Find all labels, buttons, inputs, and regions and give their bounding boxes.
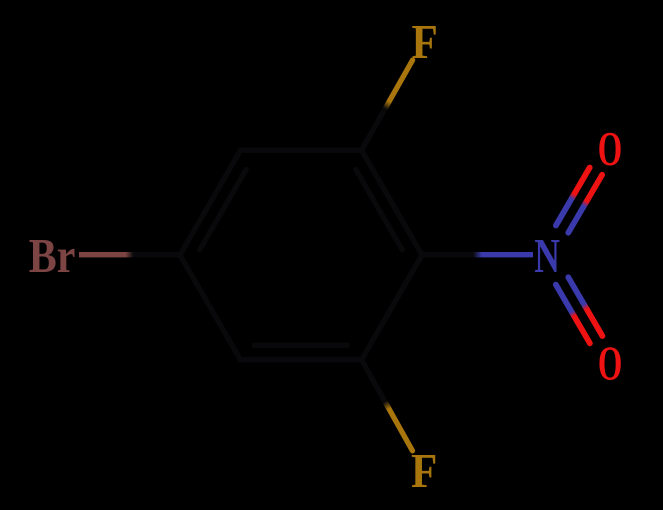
- svg-text:O: O: [598, 121, 622, 176]
- svg-text:N: N: [534, 230, 560, 284]
- svg-text:F: F: [412, 14, 438, 68]
- svg-text:Br: Br: [29, 228, 76, 283]
- svg-text:O: O: [598, 335, 622, 390]
- svg-text:F: F: [411, 443, 437, 497]
